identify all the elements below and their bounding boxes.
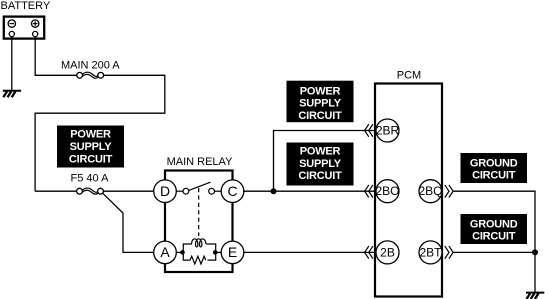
label PCM xyxy=(397,70,421,82)
wire junction up to PCM pin 2BR xyxy=(274,131,376,192)
relay resistor xyxy=(190,256,206,264)
label GROUND CIRCUIT (2BT) xyxy=(461,214,528,244)
connector chevrons 2BQ xyxy=(445,185,453,198)
wire battery positive to fuse MAIN xyxy=(35,37,77,76)
connector chevrons 2BT xyxy=(445,246,453,259)
node coil left junction xyxy=(180,250,185,255)
svg-text:2BR: 2BR xyxy=(376,123,400,137)
PCM pin 2B xyxy=(376,241,399,264)
PCM pin 2BQ xyxy=(418,180,442,203)
relay coil (inductor) xyxy=(192,239,206,247)
relay MAIN RELAY (case) xyxy=(165,171,233,273)
label MAIN 200 A xyxy=(61,59,120,71)
relay coil branch frame xyxy=(183,244,215,260)
fuse F5 40 A xyxy=(77,188,104,194)
node junction 2BQ/2BT ground xyxy=(532,249,538,255)
wire relay terminal A to coil node xyxy=(176,251,182,253)
svg-text:D: D xyxy=(160,183,170,199)
svg-text:CIRCUIT: CIRCUIT xyxy=(472,170,516,182)
svg-text:PCM: PCM xyxy=(397,70,421,82)
PCM pin 2BO xyxy=(375,180,399,203)
connector chevrons 2BR xyxy=(365,124,373,137)
svg-text:C: C xyxy=(227,183,237,199)
ground (PCM) xyxy=(526,293,544,299)
svg-text:F5 40 A: F5 40 A xyxy=(71,173,110,185)
svg-text:POWER: POWER xyxy=(300,85,341,97)
svg-text:CIRCUIT: CIRCUIT xyxy=(472,231,516,243)
node junction C/2BR xyxy=(271,188,277,194)
wire relay terminal C to PCM pin 2BO xyxy=(244,190,375,192)
battery xyxy=(4,17,44,39)
svg-text:SUPPLY: SUPPLY xyxy=(299,98,342,110)
node coil right junction xyxy=(213,250,218,255)
wire PCM pin 2BT to ground drop xyxy=(453,251,535,253)
relay switch blade (open) xyxy=(189,182,211,190)
svg-text:SUPPLY: SUPPLY xyxy=(70,141,113,153)
relay actuation dashed link xyxy=(198,188,200,236)
svg-text:MAIN RELAY: MAIN RELAY xyxy=(167,156,233,168)
relay terminal A xyxy=(154,241,177,264)
svg-text:POWER: POWER xyxy=(300,146,341,158)
relay terminal E xyxy=(221,241,244,264)
svg-text:CIRCUIT: CIRCUIT xyxy=(298,170,342,182)
wire coil node to relay terminal E xyxy=(216,251,222,253)
fuse MAIN 200 A xyxy=(77,72,104,78)
relay switch contact (D side) xyxy=(176,188,189,194)
wire junction down to ground xyxy=(534,252,536,292)
wire fuse F5 to relay terminal D xyxy=(103,190,154,192)
svg-text:GROUND: GROUND xyxy=(470,218,518,230)
connector chevrons 2B xyxy=(365,246,373,259)
label POWER SUPPLY CIRCUIT (battery feed) xyxy=(57,126,124,168)
connector chevrons 2BO xyxy=(365,185,373,198)
svg-text:MAIN 200 A: MAIN 200 A xyxy=(61,59,120,71)
relay terminal D xyxy=(154,180,177,203)
svg-text:POWER: POWER xyxy=(70,128,111,140)
svg-text:GROUND: GROUND xyxy=(470,157,518,169)
label MAIN RELAY xyxy=(167,156,233,168)
svg-text:CIRCUIT: CIRCUIT xyxy=(69,153,113,165)
svg-text:2B: 2B xyxy=(380,245,395,259)
svg-text:SUPPLY: SUPPLY xyxy=(299,158,342,170)
label POWER SUPPLY CIRCUIT (2BR) xyxy=(287,81,354,123)
svg-text:E: E xyxy=(228,244,237,260)
svg-text:BATTERY: BATTERY xyxy=(1,0,51,12)
label GROUND CIRCUIT (2BQ) xyxy=(461,153,528,183)
label F5 40 A xyxy=(71,173,110,185)
PCM pin 2BR xyxy=(376,119,400,142)
PCM pin 2BT xyxy=(419,241,442,264)
wire PCM pin 2BQ to ground drop xyxy=(453,191,535,252)
svg-text:2BT: 2BT xyxy=(419,245,442,259)
ground (battery) xyxy=(3,91,21,98)
PCM (case) xyxy=(375,84,442,297)
relay terminal C xyxy=(221,180,244,203)
wire fuse MAIN to junction loop down-left xyxy=(35,75,165,191)
relay switch contact (C side) xyxy=(209,188,222,194)
svg-text:CIRCUIT: CIRCUIT xyxy=(298,110,342,122)
wire to fuse F5 xyxy=(35,190,77,192)
svg-text:2BQ: 2BQ xyxy=(418,184,442,198)
wire battery negative to ground xyxy=(11,37,13,91)
label POWER SUPPLY CIRCUIT (2BO) xyxy=(287,143,354,186)
wire fuse F5 branch to relay terminal A xyxy=(102,193,154,253)
wire relay terminal E to PCM pin 2B xyxy=(244,251,375,253)
svg-text:A: A xyxy=(160,244,170,260)
label BATTERY xyxy=(1,0,51,12)
svg-text:2BO: 2BO xyxy=(375,184,399,198)
